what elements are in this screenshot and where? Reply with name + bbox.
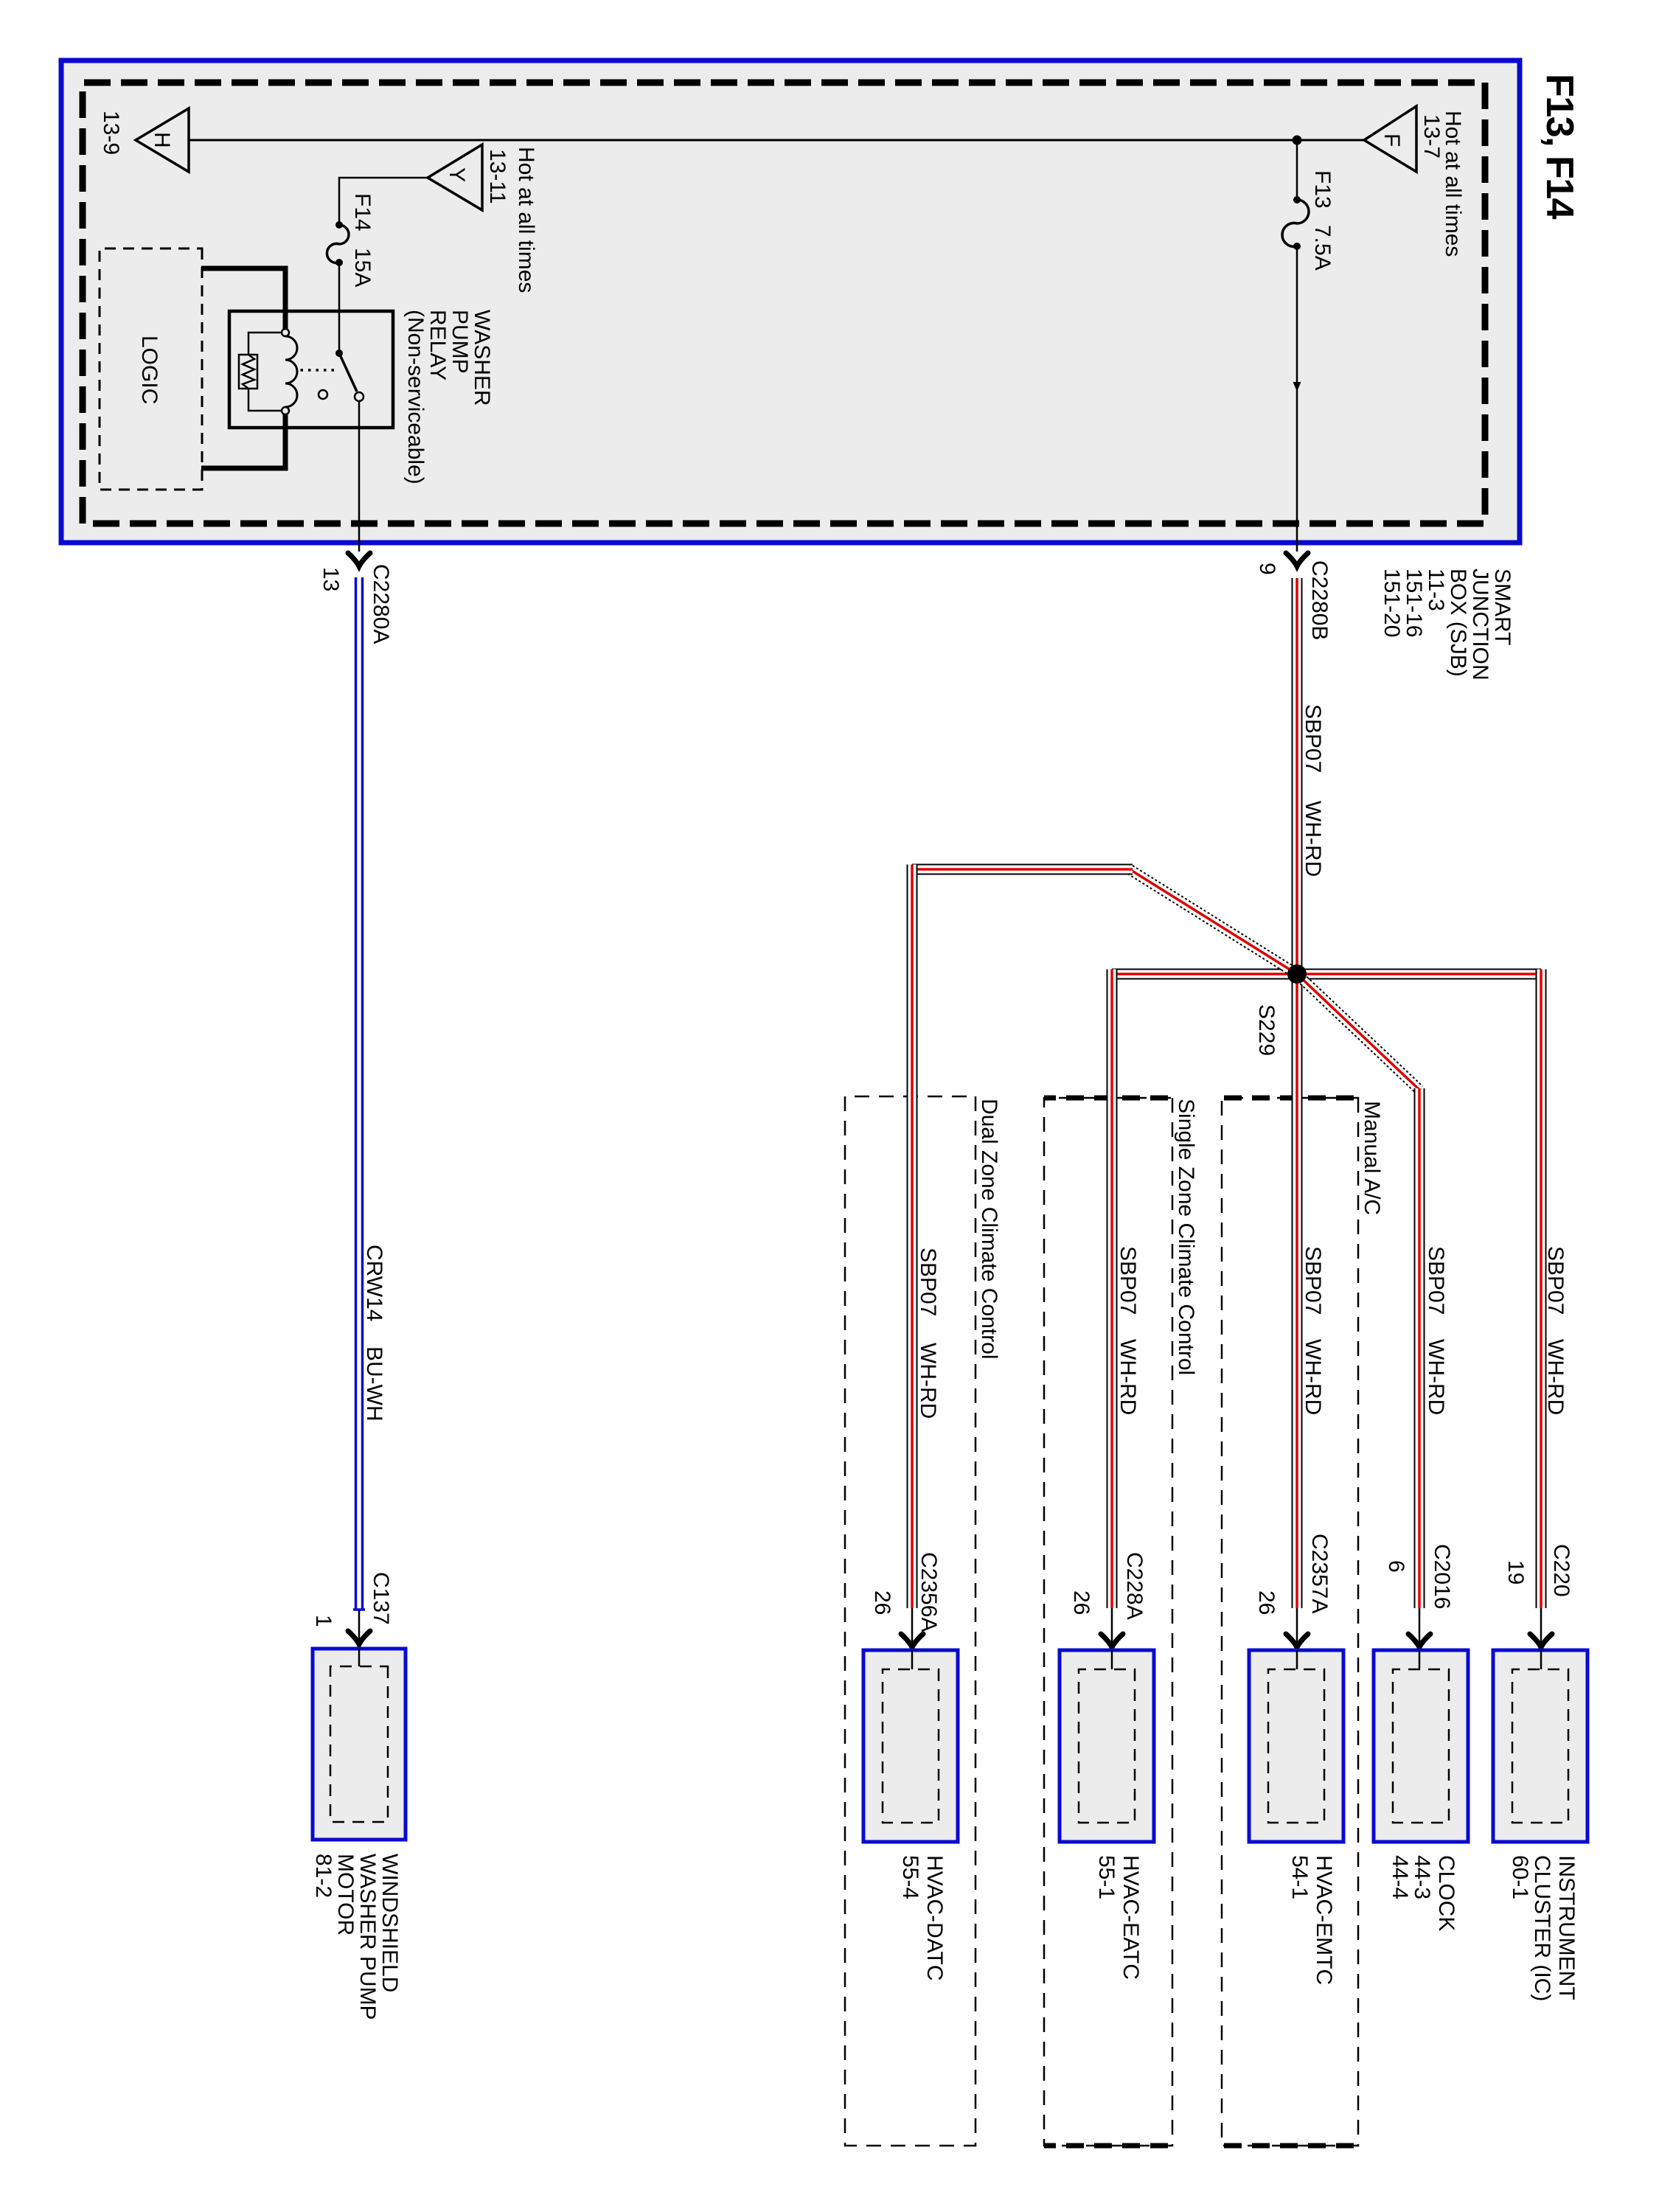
svg-text:13: 13 xyxy=(319,567,343,591)
dashed box Manual A/C xyxy=(1222,1098,1384,2146)
svg-text:F: F xyxy=(1380,133,1404,147)
label INSTRUMENT CLUSTER (IC) 60-1 xyxy=(1508,1855,1579,2001)
box CLOCK xyxy=(1374,1650,1468,1842)
relay coil xyxy=(285,336,297,407)
svg-text:44-4: 44-4 xyxy=(1388,1855,1412,1899)
label SBP07 WH-RD (feed) xyxy=(1301,704,1325,877)
thick wire LOGIC to coil pin 1 xyxy=(201,268,285,329)
wire to CLOCK xyxy=(1415,1088,1425,1608)
wire DATC vertical run xyxy=(912,865,1133,874)
label CRW14 BU-WH xyxy=(362,1245,386,1422)
wire fuse F13 to SJB edge xyxy=(1296,246,1298,552)
label SBP07 WH-RD (CLOCK) xyxy=(1424,1246,1448,1415)
svg-text:CLOCK: CLOCK xyxy=(1434,1855,1458,1931)
svg-text:13-9: 13-9 xyxy=(99,111,123,155)
connector C137 arrow xyxy=(348,1631,370,1644)
svg-text:7.5A: 7.5A xyxy=(1310,225,1335,271)
svg-text:C137: C137 xyxy=(369,1572,393,1625)
svg-text:Manual A/C: Manual A/C xyxy=(1360,1101,1384,1215)
connector C220 arrow xyxy=(1530,1634,1552,1647)
svg-text:C2280B: C2280B xyxy=(1307,560,1332,640)
wire to HVAC-DATC xyxy=(908,865,917,1609)
svg-text:SBP07: SBP07 xyxy=(1301,704,1325,773)
label HVAC-EMTC 54-1 xyxy=(1287,1855,1336,1985)
resistor path in relay xyxy=(248,333,282,411)
svg-text:WH-RD: WH-RD xyxy=(916,1343,940,1419)
svg-text:13-7: 13-7 xyxy=(1419,114,1444,159)
label SBP07 WH-RD (IC) xyxy=(1543,1246,1568,1415)
off-page connector triangle F xyxy=(1364,106,1416,172)
relay switch blade xyxy=(339,353,357,392)
wire CLOCK lead xyxy=(1419,1608,1421,1669)
box HVAC-EATC xyxy=(1060,1650,1154,1842)
svg-text:81-2: 81-2 xyxy=(311,1854,335,1898)
wire vertical branch at S229 (to IC and EATC) xyxy=(1112,970,1541,979)
box WINDSHIELD WASHER PUMP MOTOR xyxy=(313,1649,406,1840)
svg-text:C228A: C228A xyxy=(1122,1552,1147,1620)
wire SBP07 WH-RD from C2280B to S229 xyxy=(1293,578,1302,974)
box HVAC-DATC xyxy=(863,1650,958,1842)
svg-text:C2016: C2016 xyxy=(1430,1544,1454,1609)
wire EMTC lead xyxy=(1296,1608,1298,1669)
svg-text:MOTOR: MOTOR xyxy=(333,1854,358,1935)
svg-text:WH-RD: WH-RD xyxy=(1116,1339,1140,1415)
wire EATC lead xyxy=(1111,1608,1113,1669)
svg-text:C220: C220 xyxy=(1549,1544,1573,1597)
connector C228A arrow xyxy=(1101,1634,1123,1647)
wire bus to fuse F13 xyxy=(1296,140,1298,200)
svg-text:Y: Y xyxy=(445,167,469,182)
fuse F14 xyxy=(327,221,349,266)
svg-text:C2280A: C2280A xyxy=(369,564,393,644)
svg-text:CLUSTER (IC): CLUSTER (IC) xyxy=(1530,1855,1554,2001)
svg-text:15A: 15A xyxy=(350,248,375,287)
wire fuse F14 to relay switch xyxy=(338,262,341,353)
off-page connector triangle Y xyxy=(428,145,482,210)
wire to INSTRUMENT CLUSTER xyxy=(1537,970,1546,1609)
svg-text:WH-RD: WH-RD xyxy=(1543,1339,1568,1415)
svg-text:SBP07: SBP07 xyxy=(1301,1246,1325,1315)
fuse F13 xyxy=(1282,196,1309,250)
splice S229 node xyxy=(1287,964,1307,984)
svg-text:SMART: SMART xyxy=(1490,568,1514,645)
relay coil pins xyxy=(282,329,289,336)
wire diagonal S229 to DATC branch xyxy=(1127,866,1300,978)
label SBP07 WH-RD (EATC) xyxy=(1116,1246,1140,1415)
SJB dashed border xyxy=(83,83,1485,524)
svg-text:HVAC-EATC: HVAC-EATC xyxy=(1119,1855,1143,1980)
svg-text:SBP07: SBP07 xyxy=(1116,1246,1140,1315)
relay label WASHER PUMP RELAY xyxy=(403,310,494,484)
svg-text:RELAY: RELAY xyxy=(425,310,450,380)
label HVAC-EATC 55-1 xyxy=(1094,1855,1143,1980)
dashed box Single Zone Climate Control xyxy=(1044,1098,1198,2146)
box HVAC-EMTC xyxy=(1249,1650,1343,1842)
svg-text:S229: S229 xyxy=(1254,1004,1279,1056)
relay spare contact xyxy=(319,390,327,399)
connector C2357A arrow xyxy=(1286,1634,1308,1647)
svg-text:151-20: 151-20 xyxy=(1380,568,1404,637)
connector C2280A arrow xyxy=(348,553,370,566)
LOGIC dashed box xyxy=(100,248,202,490)
wire IC lead xyxy=(1540,1608,1543,1669)
svg-text:LOGIC: LOGIC xyxy=(137,335,161,404)
box INSTRUMENT CLUSTER (IC) xyxy=(1493,1650,1587,1842)
svg-text:1: 1 xyxy=(311,1615,335,1627)
connector C2356A arrow xyxy=(901,1634,923,1647)
svg-text:6: 6 xyxy=(1384,1560,1408,1573)
svg-text:WH-RD: WH-RD xyxy=(1424,1339,1448,1415)
svg-text:9: 9 xyxy=(1255,563,1279,575)
svg-text:F14: F14 xyxy=(350,193,375,232)
relay dotted actuator link xyxy=(298,369,334,372)
wire DATC lead xyxy=(911,1608,914,1669)
svg-text:26: 26 xyxy=(870,1590,894,1615)
label F13 7.5A xyxy=(1310,170,1335,271)
svg-text:54-1: 54-1 xyxy=(1287,1855,1312,1899)
svg-text:SBP07: SBP07 xyxy=(916,1248,940,1316)
dashed box Dual Zone Climate Control xyxy=(845,1096,1001,2146)
relay switch pivot xyxy=(335,349,343,357)
label SBP07 WH-RD (DATC) xyxy=(916,1248,940,1419)
wire S229 to HVAC-EMTC xyxy=(1293,974,1302,1608)
flow marker on F13 wire xyxy=(1293,382,1301,392)
bus wire from triangle F to triangle H xyxy=(189,139,1364,142)
label WINDSHIELD WASHER PUMP MOTOR 81-2 xyxy=(311,1854,402,2020)
svg-text:WH-RD: WH-RD xyxy=(1301,801,1325,877)
svg-text:Hot at all times: Hot at all times xyxy=(514,147,538,293)
svg-text:26: 26 xyxy=(1069,1590,1093,1615)
svg-text:13-11: 13-11 xyxy=(485,149,509,204)
svg-text:JUNCTION: JUNCTION xyxy=(1468,568,1492,681)
label F14 15A xyxy=(350,193,375,287)
off-page connector triangle H xyxy=(136,108,189,172)
smart junction box SJB outline xyxy=(61,60,1520,543)
wire to HVAC-EATC xyxy=(1107,970,1117,1609)
svg-text:C2356A: C2356A xyxy=(917,1552,941,1632)
svg-text:26: 26 xyxy=(1254,1590,1279,1615)
connector C2280B arrow xyxy=(1286,553,1308,566)
svg-text:PUMP: PUMP xyxy=(448,310,472,374)
relay contact (output) xyxy=(355,392,364,401)
wire CRW14 BU-WH blue double line xyxy=(353,577,365,1610)
svg-text:F13, F14: F13, F14 xyxy=(1538,74,1581,220)
svg-text:WH-RD: WH-RD xyxy=(1301,1339,1325,1415)
svg-text:SBP07: SBP07 xyxy=(1543,1246,1568,1315)
wire motor lead xyxy=(358,1610,361,1666)
svg-text:60-1: 60-1 xyxy=(1508,1855,1532,1899)
svg-text:HVAC-DATC: HVAC-DATC xyxy=(922,1855,947,1981)
connector C2016 arrow xyxy=(1408,1634,1430,1647)
node junction of F13 branch on bus xyxy=(1293,136,1302,145)
svg-text:151-16: 151-16 xyxy=(1402,568,1426,637)
resistor R (relay) xyxy=(239,355,257,389)
wire entry stubs into boxes xyxy=(359,1649,1541,1669)
svg-text:55-4: 55-4 xyxy=(898,1855,922,1899)
svg-text:HVAC-EMTC: HVAC-EMTC xyxy=(1312,1855,1336,1985)
svg-text:SBP07: SBP07 xyxy=(1424,1246,1448,1315)
svg-text:WASHER PUMP: WASHER PUMP xyxy=(355,1854,380,2020)
svg-text:WASHER: WASHER xyxy=(470,310,494,406)
svg-text:55-1: 55-1 xyxy=(1094,1855,1119,1899)
svg-text:WINDSHIELD: WINDSHIELD xyxy=(378,1854,402,1992)
label SBP07 WH-RD (EMTC) xyxy=(1301,1246,1325,1415)
label CLOCK 44-3 44-4 xyxy=(1388,1855,1458,1931)
svg-text:C2357A: C2357A xyxy=(1307,1534,1332,1613)
svg-text:F13: F13 xyxy=(1310,170,1335,209)
svg-text:INSTRUMENT: INSTRUMENT xyxy=(1554,1855,1579,2000)
relay U1 washer pump relay xyxy=(229,311,393,428)
label HVAC-DATC 55-4 xyxy=(898,1855,947,1981)
svg-text:Single Zone Climate Control: Single Zone Climate Control xyxy=(1174,1099,1198,1375)
svg-text:19: 19 xyxy=(1503,1560,1528,1585)
wire relay output to SJB edge xyxy=(358,401,361,552)
svg-text:BOX (SJB): BOX (SJB) xyxy=(1446,568,1470,677)
svg-text:44-3: 44-3 xyxy=(1410,1855,1434,1899)
svg-text:CRW14: CRW14 xyxy=(362,1245,386,1321)
svg-text:11-3: 11-3 xyxy=(1424,568,1448,611)
wire diagonal S229 to CLOCK branch xyxy=(1294,970,1423,1093)
svg-text:H: H xyxy=(150,132,174,148)
SJB label block xyxy=(1380,568,1514,681)
wire Y to fuse F14 xyxy=(339,178,428,225)
svg-text:BU-WH: BU-WH xyxy=(362,1346,386,1422)
svg-text:(Non-serviceable): (Non-serviceable) xyxy=(403,310,428,484)
svg-text:Dual Zone Climate Control: Dual Zone Climate Control xyxy=(977,1099,1001,1359)
thick wire LOGIC to coil pin 2 xyxy=(201,414,285,468)
